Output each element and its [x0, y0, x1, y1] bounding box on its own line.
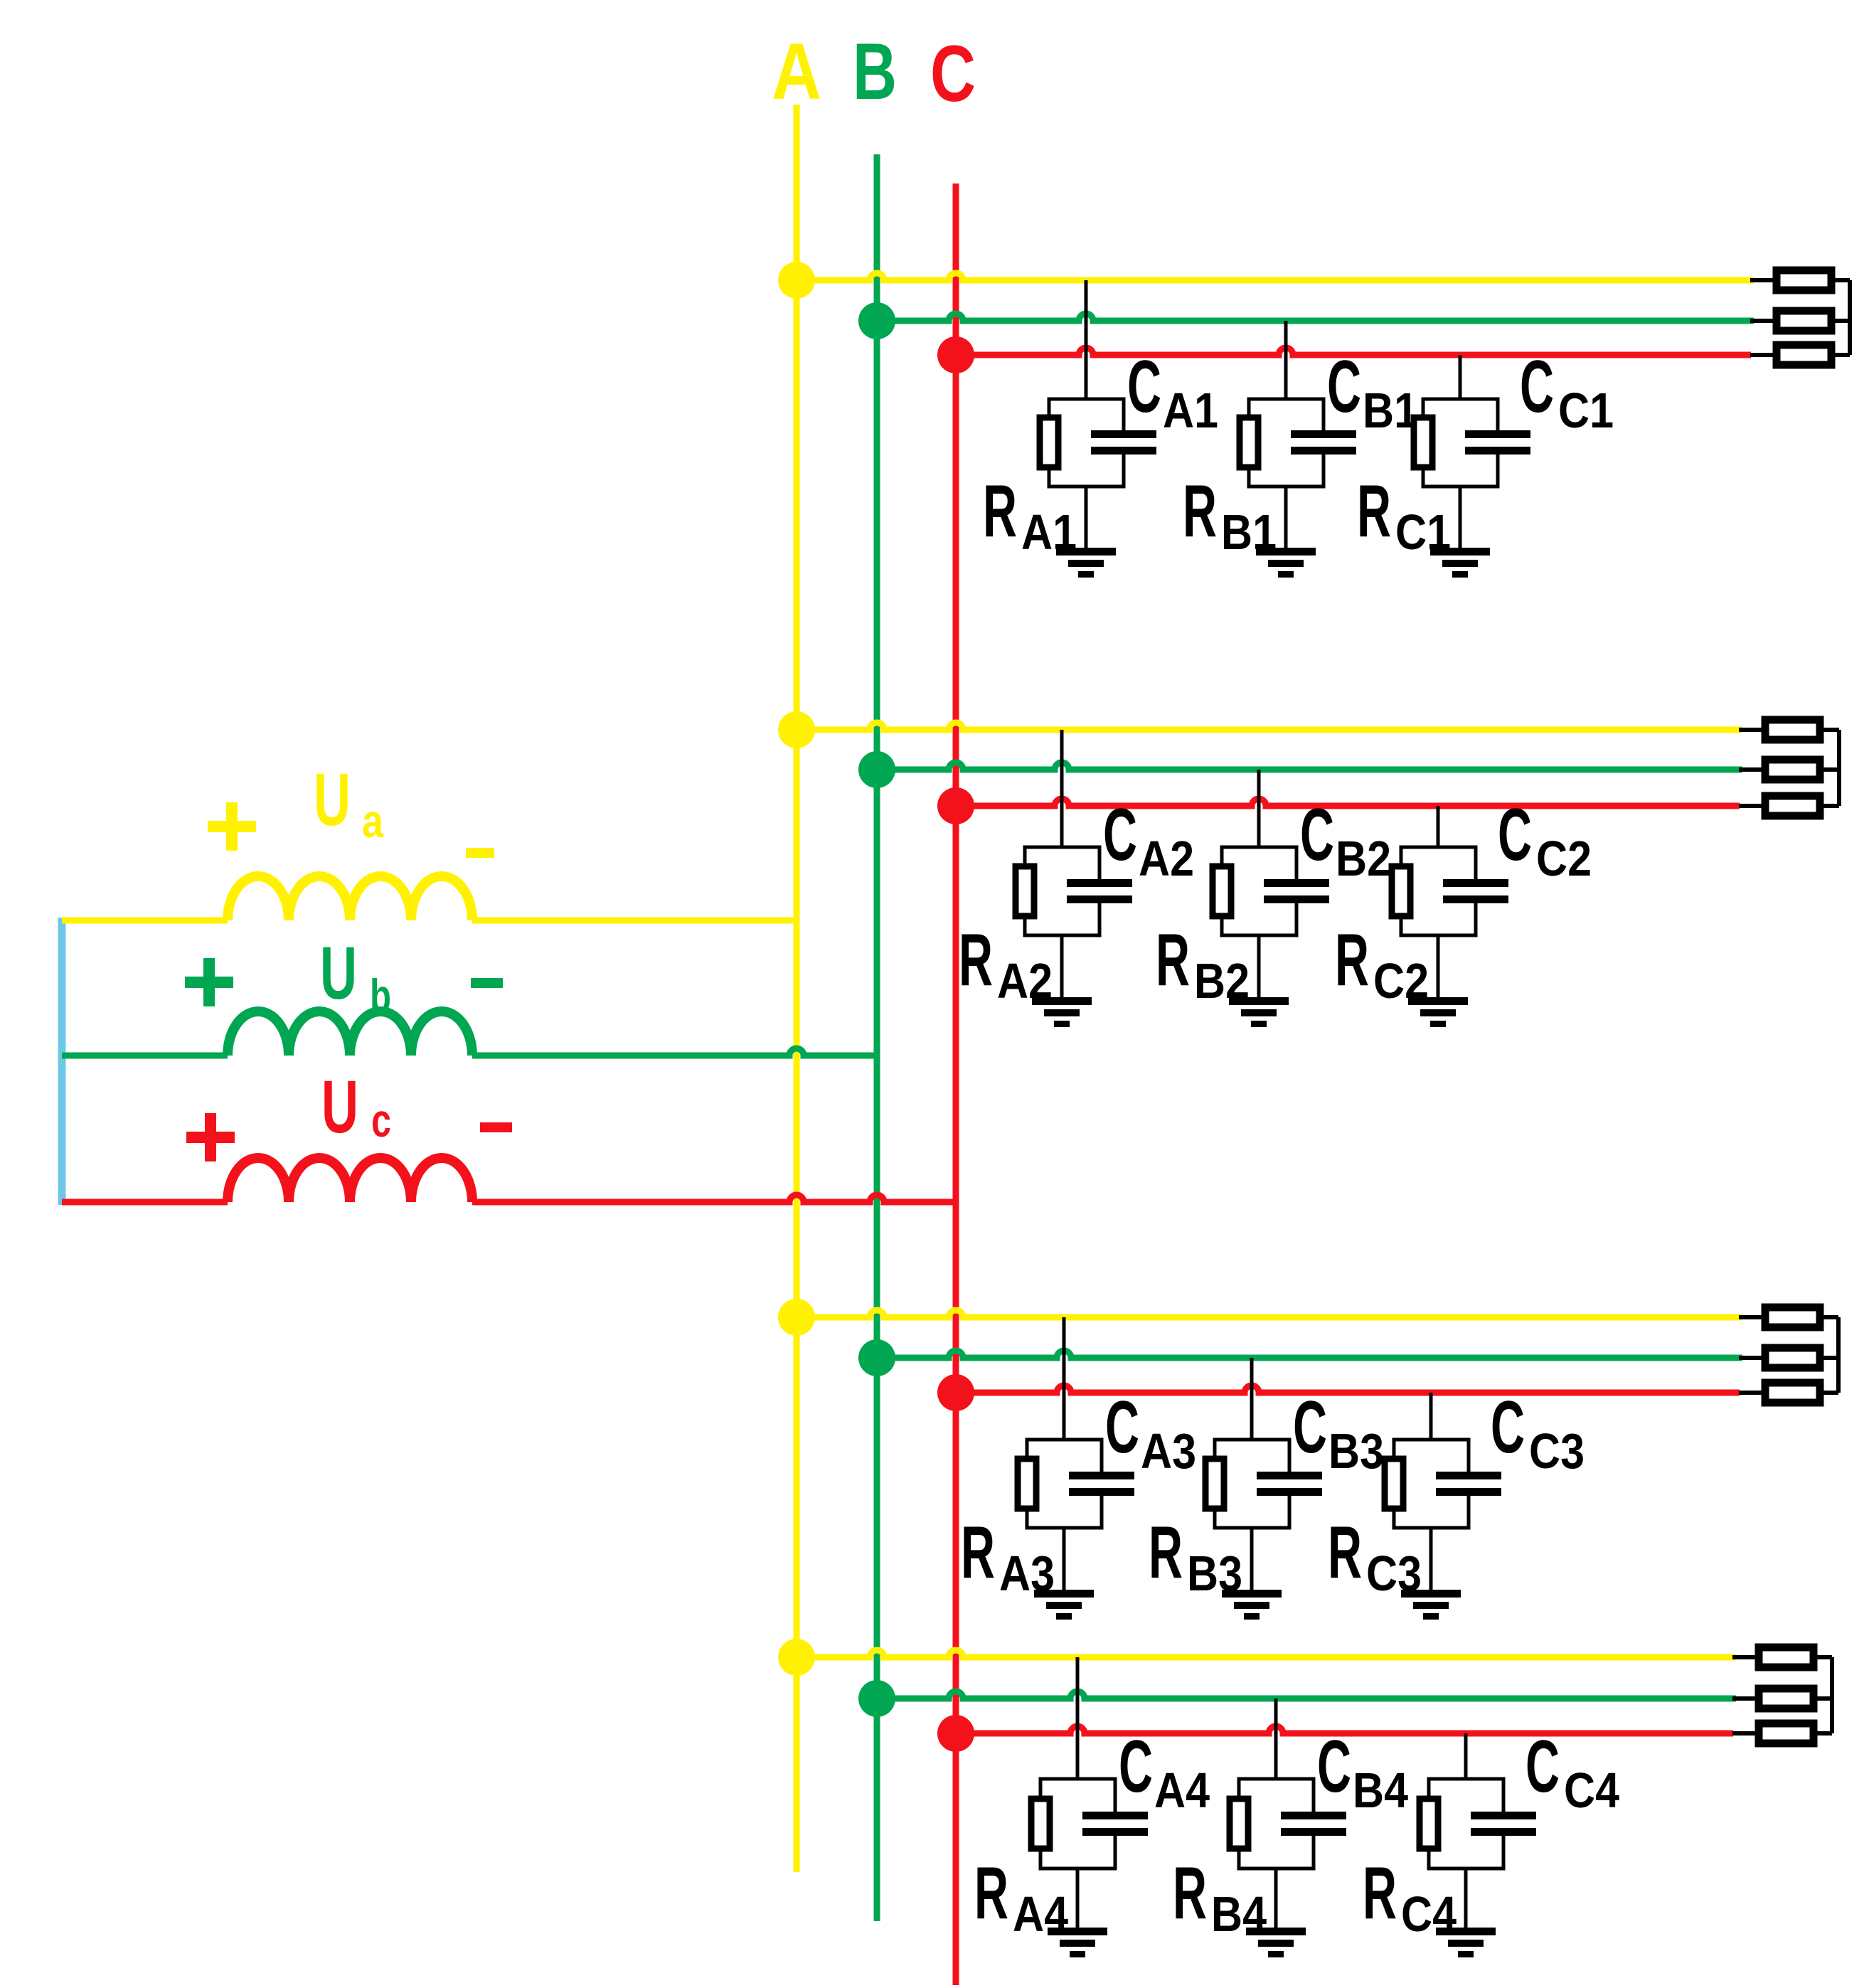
capacitor CB2 — [1264, 879, 1329, 903]
svg-text:R: R — [1357, 470, 1391, 553]
capacitor CA4 — [1082, 1812, 1148, 1836]
node junction dot row 4 bus A — [778, 1639, 815, 1676]
value label CA1 — [1127, 346, 1218, 438]
wire from row 1 phase C down into RC unit C1 — [1459, 355, 1462, 399]
svg-text:B1: B1 — [1221, 504, 1277, 560]
wire row 4 phase A (yellow, hops over buses B and C) — [797, 1650, 1736, 1657]
svg-text:A: A — [772, 27, 821, 116]
resistor RA3 — [1018, 1459, 1036, 1509]
resistor RA1 — [1040, 418, 1058, 467]
load resistor row 2 phase A — [1765, 720, 1820, 740]
svg-text:C: C — [1520, 346, 1554, 428]
svg-text:A4: A4 — [1154, 1763, 1210, 1818]
svg-text:B3: B3 — [1328, 1423, 1384, 1479]
resistor RC2 — [1392, 866, 1410, 916]
value label RC4 — [1363, 1852, 1457, 1942]
ground of RC unit C4 — [1436, 1928, 1496, 1957]
wire row 3 phase C (red, hops over capacitor wires) — [956, 1386, 1740, 1393]
wire from RC unit B3 to ground — [1250, 1528, 1254, 1590]
RC parallel loop box of RC2 / CC2 — [1401, 847, 1476, 935]
RC parallel loop box of RA4 / CA4 — [1040, 1779, 1115, 1869]
svg-text:C1: C1 — [1395, 504, 1451, 560]
svg-text:A1: A1 — [1163, 383, 1218, 438]
wire from RC unit C1 to ground — [1459, 487, 1462, 548]
load resistor row 1 phase C — [1777, 345, 1831, 365]
plus sign of source Ua — [208, 802, 256, 851]
load resistor row 2 phase C — [1765, 796, 1820, 816]
wire black stub row 4 phase A into load — [1732, 1655, 1755, 1659]
wire row 2 phase B load to common connector — [1823, 767, 1839, 772]
wire black stub row 3 phase A into load — [1739, 1315, 1762, 1319]
wire from row 4 phase A down into RC unit A4 — [1076, 1657, 1080, 1779]
wire black stub row 1 phase A into load — [1750, 278, 1773, 282]
svg-text:A2: A2 — [1139, 831, 1194, 886]
node junction dot row 1 bus B — [858, 302, 895, 339]
node junction dot row 4 bus C — [937, 1715, 974, 1752]
svg-text:R: R — [1156, 919, 1190, 1001]
node junction dot row 4 bus B — [858, 1680, 895, 1717]
wire black stub row 3 phase C into load — [1739, 1391, 1762, 1395]
wire black stub row 4 phase B into load — [1732, 1696, 1755, 1701]
resistor RB1 — [1240, 418, 1258, 467]
svg-text:B4: B4 — [1211, 1886, 1267, 1942]
RC parallel loop box of RB4 / CB4 — [1239, 1779, 1314, 1869]
inductor source Ua (yellow coil) — [228, 876, 472, 920]
wire from row 2 phase C down into RC unit C2 — [1437, 806, 1440, 847]
wire row 3 phase B load to common connector — [1823, 1356, 1838, 1360]
wire row 4 phase C load to common connector — [1817, 1731, 1832, 1735]
resistor RA4 — [1031, 1799, 1050, 1849]
minus sign of source Ua — [466, 848, 494, 858]
svg-text:C: C — [1525, 1726, 1560, 1808]
load resistor row 2 phase B — [1765, 760, 1820, 780]
svg-text:R: R — [974, 1852, 1008, 1935]
wire common load connector row 1 — [1848, 280, 1852, 355]
wire row 2 phase C load to common connector — [1823, 804, 1839, 808]
capacitor CC2 — [1443, 879, 1508, 903]
value label CB2 — [1300, 794, 1391, 886]
plus sign of source Ub — [185, 958, 233, 1006]
wire row 3 phase C load to common connector — [1823, 1391, 1838, 1395]
node junction dot row 1 bus C — [937, 336, 974, 373]
RC parallel loop box of RA1 / CA1 — [1049, 399, 1124, 487]
svg-text:U: U — [321, 1065, 358, 1149]
svg-text:B1: B1 — [1363, 383, 1418, 438]
resistor RB3 — [1205, 1459, 1224, 1509]
value label CC2 — [1498, 794, 1592, 886]
capacitor CB3 — [1257, 1472, 1322, 1496]
node junction dot row 3 bus A — [778, 1299, 815, 1336]
svg-text:C2: C2 — [1536, 831, 1592, 886]
svg-text:c: c — [371, 1094, 391, 1147]
wire black stub row 3 phase B into load — [1739, 1356, 1762, 1360]
wire black stub row 1 phase B into load — [1750, 319, 1773, 323]
RC parallel loop box of RB3 / CB3 — [1215, 1440, 1289, 1528]
load resistor row 1 phase B — [1777, 311, 1831, 331]
capacitor CA2 — [1067, 879, 1132, 903]
wire from RC unit C4 to ground — [1464, 1869, 1468, 1928]
wire phase C feeder (hops over buses A and B) — [62, 1199, 228, 1206]
wire row 4 phase A load to common connector — [1817, 1655, 1832, 1659]
wire row 2 phase C (red, hops over capacitor wires) — [956, 799, 1740, 806]
wire from RC unit A1 to ground — [1085, 487, 1088, 548]
capacitor CC4 — [1471, 1812, 1536, 1836]
svg-text:U: U — [320, 932, 357, 1015]
label Ub — [320, 932, 391, 1022]
svg-text:C: C — [1103, 794, 1137, 876]
ground of RC unit B1 — [1256, 548, 1316, 578]
wire row 4 phase B load to common connector — [1817, 1696, 1832, 1701]
svg-text:R: R — [1173, 1852, 1207, 1935]
wire from row 2 phase B down into RC unit B2 — [1257, 770, 1261, 847]
ground of RC unit A3 — [1034, 1590, 1094, 1620]
wire phase A feeder — [62, 918, 797, 924]
wire common load connector row 4 — [1830, 1657, 1834, 1733]
wire black stub row 2 phase C into load — [1739, 804, 1762, 808]
svg-text:C3: C3 — [1366, 1546, 1422, 1601]
svg-text:B3: B3 — [1187, 1546, 1242, 1601]
wire from RC unit A2 to ground — [1060, 935, 1064, 997]
wire from row 1 phase B down into RC unit B1 — [1284, 321, 1288, 399]
ground of RC unit C3 — [1401, 1590, 1461, 1620]
wire neutral (cyan vertical) — [58, 918, 66, 1205]
wire from RC unit B2 to ground — [1257, 935, 1261, 997]
ground of RC unit B2 — [1229, 997, 1289, 1027]
svg-text:A3: A3 — [999, 1546, 1055, 1601]
resistor RC3 — [1385, 1459, 1403, 1509]
load resistor row 4 phase A — [1759, 1647, 1814, 1667]
value label RC3 — [1328, 1511, 1422, 1601]
node junction dot row 1 bus A — [778, 262, 815, 299]
svg-text:B2: B2 — [1194, 953, 1250, 1009]
wire from row 3 phase A down into RC unit A3 — [1063, 1317, 1066, 1440]
value label CC3 — [1491, 1386, 1585, 1479]
value label CC4 — [1525, 1726, 1619, 1818]
svg-text:C: C — [1327, 346, 1361, 428]
ground of RC unit B4 — [1246, 1928, 1306, 1957]
wire from row 3 phase C down into RC unit C3 — [1429, 1393, 1433, 1440]
RC parallel loop box of RA3 / CA3 — [1027, 1440, 1102, 1528]
svg-text:C: C — [1300, 794, 1334, 876]
svg-text:B4: B4 — [1353, 1763, 1408, 1818]
wire row 3 phase B (green, hops over bus C and capacitor wire) — [877, 1351, 1742, 1358]
load resistor row 3 phase A — [1765, 1307, 1820, 1327]
value label RB1 — [1183, 470, 1277, 560]
load resistor row 3 phase B — [1765, 1348, 1820, 1368]
value label CA2 — [1103, 794, 1194, 886]
wire bus A (yellow vertical) — [794, 105, 800, 1872]
svg-text:U: U — [314, 758, 351, 841]
inductor source Ub (green coil) — [228, 1011, 472, 1056]
svg-text:A2: A2 — [997, 953, 1053, 1009]
RC parallel loop box of RB1 / CB1 — [1249, 399, 1324, 487]
svg-text:R: R — [1328, 1511, 1362, 1594]
wire from RC unit C3 to ground — [1429, 1528, 1433, 1590]
capacitor CA3 — [1069, 1472, 1134, 1496]
wire row 1 phase A (yellow, hops over buses B and C) — [797, 273, 1754, 280]
capacitor CB4 — [1281, 1812, 1346, 1836]
wire row 2 phase B (green, hops over bus C and capacitor wire) — [877, 762, 1742, 770]
load resistor row 4 phase C — [1759, 1723, 1814, 1743]
wire row 1 phase C load to common connector — [1835, 353, 1850, 357]
wire row 1 phase B (green, hops over bus C and capacitor wire) — [877, 314, 1754, 321]
label Ua — [314, 758, 384, 847]
ground of RC unit C2 — [1408, 997, 1468, 1027]
value label CB3 — [1293, 1386, 1384, 1479]
svg-text:R: R — [961, 1511, 995, 1594]
wire from row 1 phase A down into RC unit A1 — [1085, 280, 1088, 399]
resistor RC1 — [1414, 418, 1432, 467]
svg-text:C: C — [1498, 794, 1532, 876]
svg-text:R: R — [1149, 1511, 1183, 1594]
node junction dot row 2 bus A — [778, 711, 815, 748]
svg-text:C4: C4 — [1401, 1886, 1457, 1942]
ground of RC unit A1 — [1056, 548, 1116, 578]
svg-text:C: C — [1491, 1386, 1525, 1469]
svg-text:C: C — [1127, 346, 1161, 428]
wire row 4 phase B (green, hops over bus C and capacitor wire) — [877, 1691, 1736, 1699]
resistor RA2 — [1016, 866, 1034, 916]
wire black stub row 4 phase C into load — [1732, 1731, 1755, 1735]
svg-text:C4: C4 — [1564, 1763, 1619, 1818]
svg-text:C2: C2 — [1373, 953, 1429, 1009]
wire row 1 phase B load to common connector — [1835, 319, 1850, 323]
node junction dot row 3 bus B — [858, 1339, 895, 1376]
value label RA3 — [961, 1511, 1055, 1601]
svg-text:A4: A4 — [1013, 1886, 1068, 1942]
wire from RC unit C2 to ground — [1437, 935, 1440, 997]
wire from row 4 phase C down into RC unit C4 — [1464, 1733, 1468, 1779]
value label RA4 — [974, 1852, 1068, 1942]
svg-text:C: C — [930, 29, 976, 118]
RC parallel loop box of RA2 / CA2 — [1025, 847, 1099, 935]
inductor source Uc (red coil) — [228, 1158, 472, 1202]
RC parallel loop box of RC1 / CC1 — [1423, 399, 1498, 487]
load resistor row 1 phase A — [1777, 270, 1831, 290]
svg-text:C3: C3 — [1529, 1423, 1585, 1479]
capacitor CB1 — [1291, 430, 1356, 455]
resistor RB4 — [1230, 1799, 1248, 1849]
node junction dot row 3 bus C — [937, 1374, 974, 1411]
wire row 3 phase A (yellow, hops over buses B and C) — [797, 1310, 1742, 1317]
RC parallel loop box of RC4 / CC4 — [1429, 1779, 1503, 1869]
value label RB3 — [1149, 1511, 1242, 1601]
value label RC1 — [1357, 470, 1451, 560]
value label CA3 — [1105, 1386, 1196, 1479]
svg-text:R: R — [1363, 1852, 1397, 1935]
ground of RC unit A2 — [1032, 997, 1092, 1027]
wire from RC unit A4 to ground — [1076, 1869, 1080, 1928]
value label CA4 — [1119, 1726, 1210, 1818]
wire row 3 phase A load to common connector — [1823, 1315, 1838, 1319]
wire from row 2 phase A down into RC unit A2 — [1060, 730, 1064, 847]
wire from RC unit B1 to ground — [1284, 487, 1288, 548]
svg-text:C: C — [1293, 1386, 1327, 1469]
resistor RC4 — [1420, 1799, 1438, 1849]
load resistor row 3 phase C — [1765, 1383, 1820, 1403]
wire from RC unit A3 to ground — [1063, 1528, 1066, 1590]
minus sign of source Ub — [471, 978, 503, 988]
wire bus C (red vertical) — [953, 184, 959, 1985]
resistor RB2 — [1213, 866, 1231, 916]
svg-text:a: a — [362, 794, 384, 847]
ground of RC unit B3 — [1222, 1590, 1282, 1620]
wire common load connector row 2 — [1837, 730, 1841, 806]
wire common load connector row 3 — [1836, 1317, 1841, 1393]
wire black stub row 2 phase B into load — [1739, 767, 1762, 772]
svg-text:B2: B2 — [1336, 831, 1391, 886]
svg-text:C1: C1 — [1558, 383, 1614, 438]
node junction dot row 2 bus C — [937, 787, 974, 824]
wire from row 4 phase B down into RC unit B4 — [1274, 1699, 1278, 1779]
wire phase B feeder (hops over bus A) — [62, 1053, 228, 1059]
svg-text:C: C — [1317, 1726, 1351, 1808]
wire row 1 phase C (red, hops over capacitor wires) — [956, 348, 1751, 355]
svg-text:A3: A3 — [1141, 1423, 1196, 1479]
svg-text:A1: A1 — [1021, 504, 1077, 560]
value label CB4 — [1317, 1726, 1408, 1818]
plus sign of source Uc — [186, 1113, 235, 1162]
wire row 4 phase C (red, hops over capacitor wires) — [956, 1726, 1733, 1733]
wire from RC unit B4 to ground — [1274, 1869, 1278, 1928]
wire black stub row 1 phase C into load — [1750, 353, 1773, 357]
value label RA2 — [959, 919, 1053, 1009]
capacitor CC3 — [1436, 1472, 1501, 1496]
svg-text:R: R — [959, 919, 993, 1001]
value label RB4 — [1173, 1852, 1267, 1942]
value label RA1 — [983, 470, 1077, 560]
ground of RC unit C1 — [1430, 548, 1490, 578]
svg-text:C: C — [1119, 1726, 1153, 1808]
load resistor row 4 phase B — [1759, 1689, 1814, 1708]
value label CB1 — [1327, 346, 1418, 438]
ground of RC unit A4 — [1048, 1928, 1107, 1957]
svg-text:C: C — [1105, 1386, 1139, 1469]
svg-text:R: R — [1335, 919, 1369, 1001]
capacitor CC1 — [1465, 430, 1530, 455]
wire bus B (green vertical) — [874, 154, 880, 1921]
value label RC2 — [1335, 919, 1429, 1009]
wire row 2 phase A (yellow, hops over buses B and C) — [797, 723, 1742, 730]
capacitor CA1 — [1091, 430, 1156, 455]
label Uc — [321, 1065, 391, 1149]
value label CC1 — [1520, 346, 1614, 438]
wire row 1 phase A load to common connector — [1835, 278, 1850, 282]
svg-text:R: R — [1183, 470, 1217, 553]
node junction dot row 2 bus B — [858, 751, 895, 788]
wire black stub row 2 phase A into load — [1739, 728, 1762, 732]
minus sign of source Uc — [480, 1122, 512, 1132]
RC parallel loop box of RB2 / CB2 — [1222, 847, 1296, 935]
RC parallel loop box of RC3 / CC3 — [1394, 1440, 1469, 1528]
svg-text:B: B — [853, 27, 897, 116]
svg-text:R: R — [983, 470, 1017, 553]
wire from row 3 phase B down into RC unit B3 — [1250, 1358, 1254, 1440]
wire row 2 phase A load to common connector — [1823, 728, 1839, 732]
value label RB2 — [1156, 919, 1250, 1009]
